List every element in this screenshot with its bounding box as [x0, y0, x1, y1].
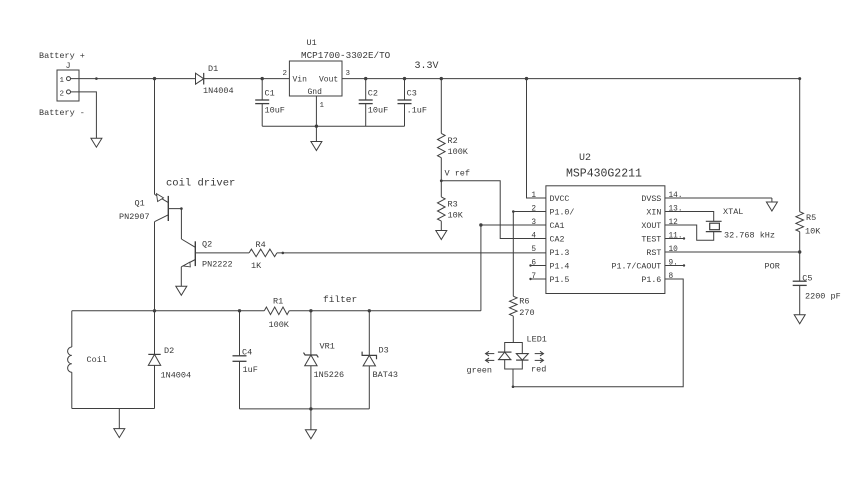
led LED1 green arrows [486, 353, 494, 355]
svg-text:.1uF: .1uF [407, 106, 427, 116]
wire P1.0 to R6 [513, 212, 546, 297]
svg-text:14.: 14. [669, 192, 683, 200]
svg-text:J: J [66, 61, 71, 71]
led LED1 red diode [516, 353, 528, 355]
resistor R4 [249, 249, 277, 257]
pin 1 of J [67, 77, 71, 81]
svg-text:Battery +: Battery + [39, 51, 85, 61]
svg-text:R6: R6 [519, 297, 529, 307]
svg-text:1N4004: 1N4004 [161, 371, 192, 381]
inductor Coil [71, 311, 73, 347]
transistor Q1 [155, 194, 169, 202]
wire R4 to pin P1.3 [277, 252, 546, 254]
junction C2 top [364, 77, 367, 80]
led LED1 red arrows [535, 353, 543, 355]
svg-text:PN2907: PN2907 [119, 212, 150, 222]
capacitor C1 [261, 79, 263, 100]
svg-text:TEST: TEST [641, 235, 661, 244]
ground DVSS [766, 202, 777, 211]
wire RST to POR node [665, 251, 800, 253]
svg-text:XOUT: XOUT [641, 222, 661, 231]
capacitor C3 [404, 79, 406, 100]
ground R3 [436, 231, 447, 240]
svg-text:10K: 10K [448, 211, 464, 221]
svg-text:1N4004: 1N4004 [203, 86, 234, 96]
wire crystal to XOUT [665, 225, 714, 240]
svg-text:Q1: Q1 [135, 199, 145, 209]
svg-text:1uF: 1uF [243, 365, 258, 375]
svg-text:2200 pF: 2200 pF [805, 292, 841, 302]
junction C1 top [261, 77, 264, 80]
diode D1 [196, 73, 204, 84]
svg-text:10K: 10K [805, 227, 821, 237]
svg-text:RST: RST [646, 249, 661, 258]
wire Q1 base to Q2 collector [168, 209, 181, 239]
regulator U1 box [289, 61, 342, 96]
capacitor C4 [239, 311, 241, 356]
ground C5 [794, 315, 805, 324]
resistor R1 [264, 307, 289, 315]
junction POR [798, 250, 801, 253]
svg-text:R1: R1 [273, 297, 283, 307]
svg-text:P1.0/: P1.0/ [550, 207, 575, 217]
svg-text:10uF: 10uF [368, 106, 388, 116]
svg-text:12: 12 [669, 219, 679, 227]
svg-text:Battery -: Battery - [39, 108, 85, 118]
pin stub P1.4 (pin 6) [531, 265, 546, 267]
svg-text:Q2: Q2 [202, 240, 212, 250]
ground filter [305, 430, 316, 439]
svg-text:7: 7 [531, 273, 536, 281]
node V ref wire [441, 181, 546, 239]
svg-text:10: 10 [669, 246, 679, 254]
svg-text:R3: R3 [448, 200, 458, 210]
svg-text:2: 2 [283, 70, 288, 78]
svg-text:13.: 13. [669, 205, 683, 213]
junction D3 top [368, 309, 371, 312]
svg-text:C3: C3 [407, 89, 417, 99]
schottky diode D3 [368, 311, 370, 356]
svg-text:D3: D3 [379, 346, 389, 356]
wire battery+ to D1 anode [71, 78, 196, 80]
led LED1 green diode [498, 351, 512, 353]
svg-text:R5: R5 [806, 213, 816, 223]
svg-text:1: 1 [60, 77, 65, 85]
ground battery- [91, 138, 102, 147]
wire D1 cathode to U1 Vin [204, 78, 290, 80]
svg-text:8: 8 [669, 273, 674, 281]
capacitor C2 [365, 79, 367, 100]
svg-text:D2: D2 [164, 346, 174, 356]
svg-text:R4: R4 [256, 240, 266, 250]
wire 3.3V to R5 [799, 79, 801, 212]
svg-text:10uF: 10uF [265, 106, 285, 116]
junction C4 top [238, 309, 241, 312]
svg-text:DVCC: DVCC [550, 195, 570, 204]
svg-text:VR1: VR1 [320, 342, 335, 352]
svg-text:P1.5: P1.5 [550, 276, 570, 285]
svg-text:R2: R2 [448, 136, 458, 146]
svg-text:P1.3: P1.3 [550, 249, 570, 258]
svg-text:LED1: LED1 [527, 335, 547, 345]
svg-text:P1.4: P1.4 [550, 262, 570, 271]
svg-text:C2: C2 [368, 89, 378, 99]
svg-text:XTAL: XTAL [723, 207, 743, 217]
svg-text:MSP430G2211: MSP430G2211 [566, 168, 642, 181]
svg-text:V ref: V ref [445, 169, 471, 179]
ground coil [114, 429, 125, 438]
wire LED1 to P1.6 [513, 279, 683, 387]
zener VR1 [310, 311, 312, 355]
resistor R2 [440, 79, 442, 134]
pin 2 of J [67, 90, 71, 94]
junction filter ground [309, 407, 312, 410]
wire Q1 collector down to coil rail [154, 222, 156, 311]
svg-text:filter: filter [323, 294, 357, 305]
svg-text:9.: 9. [669, 259, 678, 267]
wire R5 to POR node [799, 232, 801, 252]
pin stub TEST (pin 11) [665, 238, 684, 240]
svg-text:3.3V: 3.3V [415, 61, 439, 72]
svg-text:4: 4 [531, 232, 536, 240]
capacitor C5 [799, 252, 801, 281]
svg-text:red: red [531, 365, 546, 375]
svg-text:Vin: Vin [293, 76, 308, 85]
svg-text:32.768 kHz: 32.768 kHz [724, 231, 775, 241]
svg-text:MCP1700-3302E/TO: MCP1700-3302E/TO [301, 50, 391, 61]
wire 3.3V rail [342, 78, 800, 80]
svg-text:3: 3 [531, 219, 536, 227]
svg-text:PN2222: PN2222 [202, 260, 233, 270]
svg-text:Gnd: Gnd [308, 88, 323, 97]
connector J (battery) [57, 70, 79, 101]
pin stub P1.5 (pin 7) [531, 278, 546, 280]
wire coil ground stub [118, 409, 120, 429]
wire CA1 pin 3 [481, 224, 546, 226]
transistor Q2 [181, 239, 195, 247]
wire coil top rail [72, 310, 264, 312]
svg-text:P1.6: P1.6 [641, 276, 661, 285]
svg-text:Coil: Coil [87, 355, 107, 365]
svg-text:2: 2 [531, 205, 536, 213]
wire rail to Q1 emitter [154, 79, 156, 195]
svg-text:2: 2 [60, 90, 65, 98]
wire filter bottom rail [240, 408, 370, 410]
svg-text:DVSS: DVSS [641, 195, 661, 204]
wire R1 to CA1 riser [289, 310, 481, 312]
diode D2 [154, 311, 156, 355]
wire U1 Gnd lead [315, 96, 317, 142]
wire DVSS to ground [665, 197, 772, 199]
wire Q2 emitter to ground [180, 267, 182, 287]
junction R2 top [440, 77, 443, 80]
junction DVCC rail [525, 77, 528, 80]
svg-text:green: green [467, 366, 493, 376]
svg-text:1N5226: 1N5226 [314, 370, 345, 380]
junction battery rail / Q1 emitter [153, 77, 156, 80]
wire coil bottom rail [72, 408, 155, 410]
pin stub P1.7/CAOUT (pin 9) [665, 265, 684, 267]
wire R6 to LED1 [512, 316, 514, 342]
wire XIN to crystal [665, 212, 714, 222]
wire filter ground stub [310, 409, 312, 430]
svg-text:BAT43: BAT43 [373, 370, 399, 380]
svg-text:1: 1 [320, 102, 325, 110]
led LED1 body [505, 343, 523, 354]
svg-text:Vout: Vout [319, 76, 338, 85]
svg-text:coil driver: coil driver [166, 178, 235, 190]
ground U1 [311, 142, 322, 151]
svg-text:5: 5 [531, 246, 536, 254]
ground bus under U1 [262, 125, 404, 127]
junction C3 top [403, 77, 406, 80]
svg-text:U2: U2 [579, 153, 591, 164]
svg-text:100K: 100K [448, 147, 469, 157]
svg-text:C1: C1 [265, 89, 275, 99]
resistor R3 [440, 181, 442, 197]
svg-text:U1: U1 [307, 38, 317, 48]
junction CA1 corner [479, 223, 482, 226]
resistor R5 [796, 212, 804, 232]
svg-text:270: 270 [519, 308, 534, 318]
ground Q2 emitter [176, 286, 187, 295]
svg-text:POR: POR [765, 262, 780, 272]
junction VR1 top [309, 309, 312, 312]
svg-text:1K: 1K [251, 261, 262, 271]
wire Q2 base lead [195, 252, 249, 254]
svg-text:XIN: XIN [646, 208, 661, 217]
resistor R6 [510, 296, 518, 316]
svg-text:11.: 11. [669, 232, 683, 240]
svg-text:100K: 100K [269, 320, 290, 330]
crystal XTAL [706, 220, 722, 222]
svg-text:CA1: CA1 [550, 222, 565, 231]
ic U2 box [546, 186, 665, 294]
wire filter to CA1 riser [480, 225, 482, 311]
wire 3.3V to DVCC pin 1 [527, 79, 546, 198]
svg-text:3: 3 [346, 70, 351, 78]
svg-text:C4: C4 [242, 348, 252, 358]
svg-text:1: 1 [531, 192, 536, 200]
svg-text:6: 6 [531, 259, 536, 267]
svg-text:C5: C5 [802, 274, 812, 284]
svg-text:P1.7/CAOUT: P1.7/CAOUT [612, 261, 662, 271]
junction Q1 collector / D2 / rail [153, 309, 156, 312]
svg-text:CA2: CA2 [550, 235, 565, 244]
svg-text:D1: D1 [208, 64, 218, 74]
wire battery- pin2 down [71, 92, 97, 138]
